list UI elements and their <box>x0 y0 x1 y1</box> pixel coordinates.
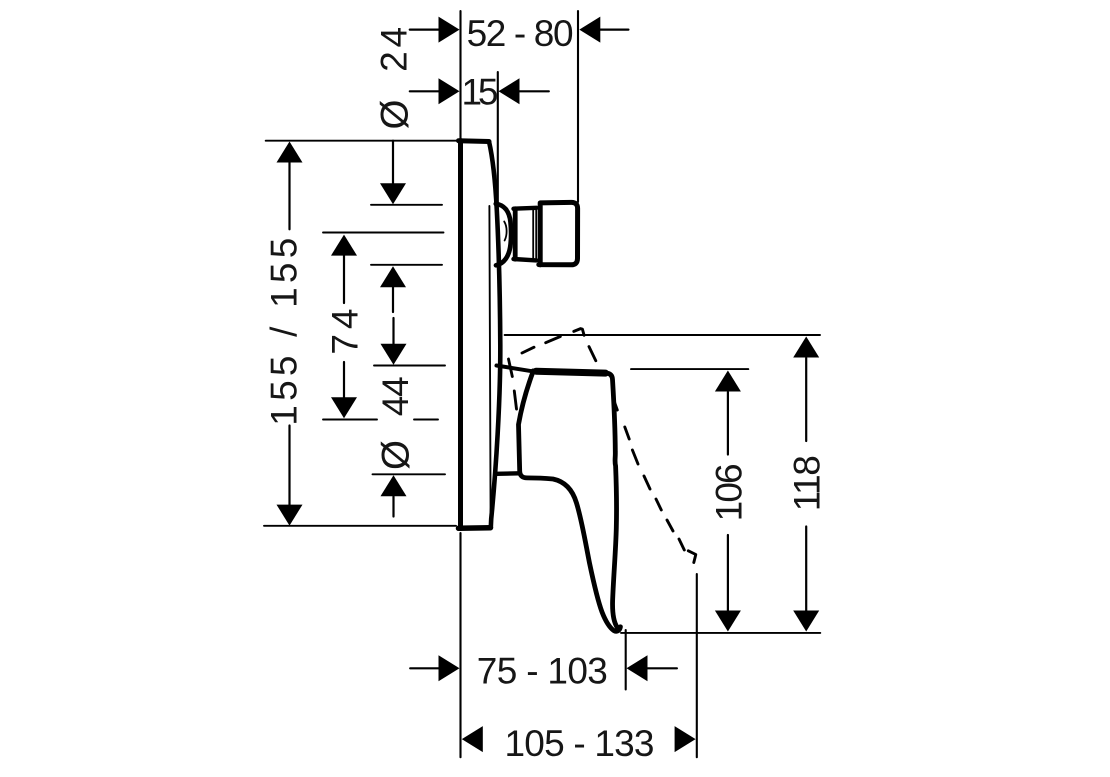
bottom extension line under plate <box>459 533 461 757</box>
svg-text:105 - 133: 105 - 133 <box>505 723 655 764</box>
reference line bottom of handle (106/118) <box>621 632 820 634</box>
lifted handle (dashed) right edge <box>589 347 684 550</box>
handle connector bottom edge <box>497 471 520 476</box>
knob ring bottom edge <box>514 259 537 260</box>
plate top extension line <box>266 140 458 142</box>
extension line under handle tip <box>625 630 627 690</box>
dimension 75-103 tails <box>410 667 438 669</box>
dimension 118 tails <box>805 358 807 441</box>
dimension 52-80 line tails <box>410 29 439 31</box>
dimension O24 upper tail <box>392 141 394 184</box>
arrowheads 155/155 <box>277 142 303 163</box>
arrowheads O24 <box>380 183 406 204</box>
svg-text:15: 15 <box>462 72 499 113</box>
escutcheon plate face line <box>489 206 490 517</box>
handle connector top edge <box>497 366 533 372</box>
dimension O44 lower tail <box>392 497 394 517</box>
plate bottom extension line <box>264 525 456 527</box>
tick knob bottom <box>371 264 442 266</box>
tick knob top <box>371 204 442 206</box>
svg-text:118: 118 <box>787 455 828 511</box>
svg-text:75 - 103: 75 - 103 <box>477 651 608 692</box>
reference line top of handle (106) <box>631 368 748 370</box>
dimension O24 lower tail <box>392 286 394 312</box>
dimension 15 line tails <box>410 90 439 92</box>
dimension 106 tails <box>727 392 729 455</box>
escutcheon plate bottom edge <box>459 525 491 531</box>
extension line at knob end (52-80 right) <box>577 11 579 202</box>
extension line at plate front face (15 right) <box>497 72 499 203</box>
tick knob centerline <box>323 232 444 234</box>
arrowheads 118 <box>793 337 819 358</box>
handle lever outline <box>519 371 621 631</box>
ticks handle boss centerline <box>323 419 377 421</box>
svg-text:44: 44 <box>375 376 416 416</box>
extension line left of plate (52-80 / 15) <box>459 11 461 139</box>
knob ring/body separation lines <box>532 210 534 259</box>
svg-text:Ø: Ø <box>374 100 417 130</box>
svg-text:106: 106 <box>708 463 749 521</box>
knob collar <box>496 204 511 265</box>
reference line top of lifted handle (118) <box>505 334 820 336</box>
svg-text:Ø: Ø <box>375 440 418 470</box>
escutcheon plate right silhouette <box>489 142 500 528</box>
lifted handle (dashed) pivot edge <box>509 359 513 377</box>
knob collar inner arc <box>504 222 506 241</box>
arrowheads O44 <box>381 344 407 365</box>
lifted handle (dashed) tip <box>688 551 696 563</box>
tick handle boss top <box>374 365 445 367</box>
arrowheads 106 <box>715 371 741 392</box>
lifted handle (dashed) top edge <box>522 329 584 353</box>
arrowheads 52-80 <box>439 17 460 43</box>
arrowheads 74 <box>331 235 357 256</box>
svg-text:155 / 155: 155 / 155 <box>264 238 305 426</box>
dimension 74 tails <box>343 255 345 303</box>
escutcheon plate top edge <box>459 138 490 144</box>
tick handle boss bottom <box>373 473 446 475</box>
arrowheads 15 <box>439 78 460 104</box>
handle top edge (thick) <box>536 371 606 373</box>
knob ring top edge <box>514 206 537 211</box>
escutcheon plate left edge <box>458 141 463 529</box>
dimension 155/155 line tails <box>288 163 290 230</box>
extension line under lifted-handle tip <box>696 574 698 757</box>
dimension O44 upper tail <box>392 318 394 344</box>
arrowheads 105-133 <box>462 726 483 752</box>
arrowheads 75-103 <box>439 655 460 681</box>
svg-text:52 - 80: 52 - 80 <box>467 13 574 54</box>
knob body <box>539 202 578 265</box>
knob ring left edge <box>513 209 518 259</box>
